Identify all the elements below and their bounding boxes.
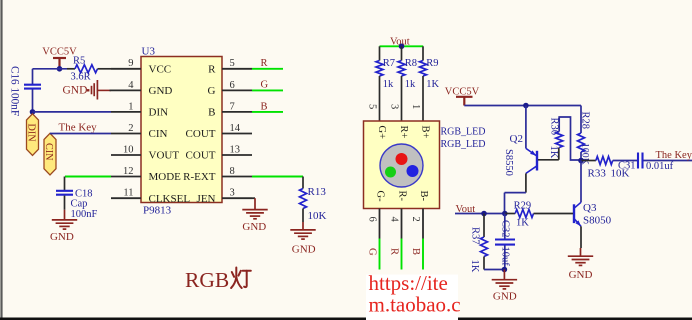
svg-text:U3: U3 xyxy=(142,46,156,58)
svg-text:3: 3 xyxy=(230,188,235,199)
svg-text:B: B xyxy=(410,248,421,255)
svg-text:R33: R33 xyxy=(588,167,607,179)
svg-text:CIN: CIN xyxy=(149,128,168,140)
op-amp/IC U3 P9813 body xyxy=(141,46,222,217)
U3 pin 2 CIN (left) xyxy=(111,123,168,140)
wire Q3 emitter to ground xyxy=(580,226,582,248)
LED module RGB_LED body xyxy=(364,121,440,209)
wire (green) net B from pin 7 xyxy=(252,111,283,113)
svg-text:R: R xyxy=(208,64,216,76)
svg-text:1k: 1k xyxy=(383,79,394,90)
wire C16 bottom lead to DIN node xyxy=(32,90,34,112)
svg-text:8: 8 xyxy=(230,166,235,177)
svg-text:GND: GND xyxy=(63,85,88,97)
net labels RGB_LED xyxy=(441,127,486,151)
net label R xyxy=(261,58,268,69)
svg-text:G: G xyxy=(208,85,216,97)
sheet bottom border xyxy=(0,317,692,320)
junction dot Vout rail xyxy=(399,44,405,50)
svg-text:VCC: VCC xyxy=(149,64,172,76)
wire bottom node R37/C32 xyxy=(484,269,505,271)
capacitor C31 0.01uf xyxy=(618,153,692,173)
svg-text:DIN: DIN xyxy=(25,124,36,143)
svg-text:R29: R29 xyxy=(514,200,532,211)
U3 pin 14 COUT (right) xyxy=(186,123,252,140)
transistor Q3 S8050 xyxy=(574,202,612,227)
power VCC5V (left) xyxy=(42,47,77,70)
svg-text:RGB: RGB xyxy=(185,268,229,292)
svg-text:GND: GND xyxy=(50,231,74,243)
svg-text:RGB_LED: RGB_LED xyxy=(441,127,486,138)
svg-text:G+: G+ xyxy=(376,126,387,140)
wire (green) net G from pin 6 xyxy=(252,89,283,91)
svg-text:1: 1 xyxy=(410,104,421,109)
U3 pin 12 MODE (left) xyxy=(111,166,181,183)
svg-text:10uf: 10uf xyxy=(499,247,510,267)
junction dot ground node xyxy=(502,267,508,273)
svg-text:B: B xyxy=(208,107,215,119)
resistor R13 10K xyxy=(300,177,327,223)
junction dot R28/R33/Q3 node xyxy=(578,158,584,164)
wire Q2 emitter xyxy=(525,106,527,149)
svg-text:R: R xyxy=(261,58,268,69)
svg-text:R28: R28 xyxy=(580,112,591,130)
ground GND below R13 xyxy=(290,222,315,256)
svg-text:CLKSEL: CLKSEL xyxy=(149,193,191,205)
svg-text:1K: 1K xyxy=(548,146,559,159)
net label G (rotated) xyxy=(367,248,378,256)
port CIN xyxy=(43,133,56,175)
resistor R9 1K xyxy=(420,46,440,121)
svg-text:5: 5 xyxy=(230,58,235,69)
port DIN xyxy=(25,114,38,156)
svg-text:COUT: COUT xyxy=(186,128,216,140)
ground GND below C18 xyxy=(50,210,77,243)
wire (green) Vout rail xyxy=(380,45,424,47)
capacitor C16 100nF xyxy=(9,66,42,116)
resistor R5 3.6R xyxy=(67,55,111,82)
svg-text:9: 9 xyxy=(128,58,133,69)
svg-text:Q2: Q2 xyxy=(510,133,523,145)
resistor R36 1K xyxy=(548,117,579,160)
LED pin 6 G- (bottom) with wire xyxy=(367,191,386,270)
svg-text:GND: GND xyxy=(292,244,316,256)
U3 pin 1 DIN (left) xyxy=(111,101,168,118)
svg-text:6: 6 xyxy=(367,217,378,222)
svg-text:R: R xyxy=(389,248,400,255)
resistor R37 1K xyxy=(469,214,488,273)
resistor R8 1k xyxy=(398,46,417,121)
svg-text:B: B xyxy=(261,101,268,112)
svg-text:G: G xyxy=(261,80,269,91)
svg-text:CIN: CIN xyxy=(43,143,54,161)
svg-text:JEN: JEN xyxy=(197,193,216,205)
LED pin 5 G+ (top) xyxy=(367,104,388,139)
U3 pin 7 B (right) xyxy=(208,101,252,118)
wire Q3 collector xyxy=(580,161,582,203)
LED pin 4 R- (bottom) with wire xyxy=(389,191,408,270)
resistor R33 10K xyxy=(581,157,637,180)
wire CIN port to pin 2 xyxy=(50,133,111,135)
svg-text:GND: GND xyxy=(493,290,517,302)
svg-text:B+: B+ xyxy=(420,126,431,139)
svg-text:R36: R36 xyxy=(548,118,559,136)
svg-text:3: 3 xyxy=(389,104,400,109)
svg-text:S8050: S8050 xyxy=(583,215,612,227)
svg-text:R8: R8 xyxy=(405,58,417,69)
capacitor C32 10uf xyxy=(495,214,515,270)
junction dot Q2 emitter node xyxy=(523,103,529,109)
svg-text:3.6R: 3.6R xyxy=(71,72,91,83)
LED pin 2 B- (bottom) with wire xyxy=(410,191,429,270)
svg-text:2: 2 xyxy=(128,123,133,134)
ground GND at U3 pin 3 JEN xyxy=(242,198,267,233)
net label The Key (right) xyxy=(656,150,692,161)
svg-text:1K: 1K xyxy=(469,260,480,273)
svg-text:C31: C31 xyxy=(618,160,636,171)
title text RGB灯 xyxy=(185,268,251,293)
svg-text:7: 7 xyxy=(230,101,235,112)
svg-text:m.taobao.c: m.taobao.c xyxy=(369,293,461,317)
svg-text:14: 14 xyxy=(230,123,241,134)
net label B (rotated) xyxy=(410,248,421,255)
svg-text:VOUT: VOUT xyxy=(149,150,180,162)
svg-text:4: 4 xyxy=(389,217,400,223)
wire (green) pin 12 MODE to C18 xyxy=(65,177,112,191)
svg-text:12: 12 xyxy=(123,166,134,177)
power Vout (bottom net label) xyxy=(456,204,476,215)
svg-text:0.01uf: 0.01uf xyxy=(646,161,674,172)
svg-text:Q3: Q3 xyxy=(583,202,597,214)
wire (green) pin 8 R-EXT to R13 xyxy=(252,176,303,178)
svg-text:MODE: MODE xyxy=(149,171,182,183)
svg-text:1k: 1k xyxy=(405,79,416,90)
svg-text:P9813: P9813 xyxy=(143,205,172,217)
svg-text:R7: R7 xyxy=(383,58,395,69)
net label G xyxy=(261,80,269,91)
svg-text:10K: 10K xyxy=(308,210,327,222)
svg-text:R13: R13 xyxy=(308,186,327,198)
wire Q2 collector to Vout node xyxy=(505,173,526,213)
svg-text:R-: R- xyxy=(397,191,408,202)
ground GND below C32 xyxy=(492,270,517,303)
svg-text:The Key: The Key xyxy=(656,150,692,161)
svg-text:4: 4 xyxy=(128,80,134,91)
svg-text:11: 11 xyxy=(123,188,133,199)
svg-text:10: 10 xyxy=(123,144,134,155)
U3 pin 9 VCC (left) xyxy=(111,58,171,75)
wire VCC5V to R28 top xyxy=(464,105,581,107)
U3 pin 5 R (right) xyxy=(208,58,252,75)
U3 pin 11 CLKSEL (left) xyxy=(111,188,190,205)
resistor R29 1K xyxy=(505,200,573,228)
svg-text:G-: G- xyxy=(375,191,386,203)
svg-text:6: 6 xyxy=(230,80,235,91)
wire DIN node to pin 1 xyxy=(33,111,112,113)
svg-text:G: G xyxy=(367,248,378,256)
svg-text:GND: GND xyxy=(149,85,173,97)
svg-text:S8550: S8550 xyxy=(503,149,514,176)
U3 pin 4 GND (left) xyxy=(110,80,173,97)
svg-text:RGB_LED: RGB_LED xyxy=(441,139,486,150)
svg-text:100nF: 100nF xyxy=(71,209,98,220)
U3 pin 8 R-EXT (right) xyxy=(183,166,252,183)
svg-text:1: 1 xyxy=(128,101,133,112)
svg-text:5: 5 xyxy=(367,104,378,109)
svg-text:R37: R37 xyxy=(469,227,480,245)
junction dot DIN node xyxy=(30,109,36,115)
wire Vout to R29 xyxy=(455,213,505,215)
power VCC5V (right) xyxy=(445,86,480,105)
U3 pin 13 COUT (right) xyxy=(186,144,252,161)
wire (green) net R from pin 5 xyxy=(252,68,283,70)
svg-text:2: 2 xyxy=(410,217,421,222)
junction dot C32 node xyxy=(502,211,508,217)
ground GND below Q3 xyxy=(568,248,593,281)
net label R (rotated) xyxy=(389,248,400,255)
svg-text:The Key: The Key xyxy=(59,122,98,134)
svg-text:R+: R+ xyxy=(398,126,409,139)
wire VCC node to C16 top xyxy=(33,68,68,70)
capacitor C18 Cap 100nF xyxy=(56,188,98,220)
svg-text:https://ite: https://ite xyxy=(369,271,448,295)
junction dot at VCC5V node xyxy=(57,66,63,72)
U3 pin 10 VOUT (left) xyxy=(111,144,179,161)
svg-text:C16 100nF: C16 100nF xyxy=(9,66,21,116)
svg-text:R9: R9 xyxy=(426,58,438,69)
resistor R28 100K xyxy=(578,106,591,165)
LED pin 1 B+ (top) xyxy=(410,104,431,139)
power Vout (top) xyxy=(390,36,410,47)
svg-text:1K: 1K xyxy=(426,79,439,90)
net label The Key (left) xyxy=(59,122,98,134)
watermark shop text xyxy=(366,271,461,320)
LED pin 3 R+ (top) xyxy=(389,104,410,139)
power ground GND (bar style) at U3 pin 4 xyxy=(63,80,112,100)
svg-text:B-: B- xyxy=(418,191,429,202)
svg-text:C32: C32 xyxy=(499,220,510,238)
svg-text:COUT: COUT xyxy=(186,150,216,162)
svg-text:1K: 1K xyxy=(516,218,529,229)
svg-text:R5: R5 xyxy=(73,55,85,66)
net label B xyxy=(261,101,268,112)
resistor R7 1k xyxy=(376,46,395,121)
svg-text:GND: GND xyxy=(569,269,593,281)
U3 pin 3 JEN (right) xyxy=(197,188,252,205)
transistor Q2 S8550 xyxy=(503,133,559,176)
junction dot R37 node xyxy=(481,211,487,217)
wire C16 top lead xyxy=(32,69,34,84)
svg-text:Cap: Cap xyxy=(71,198,88,209)
U3 pin 6 G (right) xyxy=(208,80,252,97)
svg-text:DIN: DIN xyxy=(149,107,169,119)
svg-text:VCC5V: VCC5V xyxy=(42,47,77,58)
sheet left border xyxy=(0,0,2,320)
svg-text:GND: GND xyxy=(242,221,266,233)
svg-text:R-EXT: R-EXT xyxy=(183,171,216,183)
svg-text:13: 13 xyxy=(230,144,241,155)
